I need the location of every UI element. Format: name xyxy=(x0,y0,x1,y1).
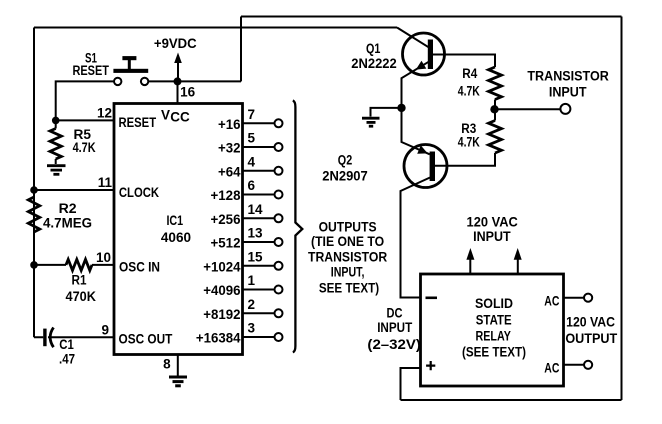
wire Q1 collector lead diagonal xyxy=(397,28,429,48)
svg-text:+16: +16 xyxy=(218,117,241,132)
IC IC1 4060 box xyxy=(114,104,243,355)
wire pin 10 stubs xyxy=(34,264,114,266)
svg-text:4.7K: 4.7K xyxy=(458,134,480,149)
terminal transistor input circle xyxy=(560,104,570,114)
svg-text:2N2907: 2N2907 xyxy=(322,169,368,184)
arrowhead 120VAC left xyxy=(466,248,474,260)
svg-text:IC1: IC1 xyxy=(166,213,183,228)
terminal AC output top circle xyxy=(584,294,592,302)
svg-text:.47: .47 xyxy=(59,352,75,367)
svg-text:+1024: +1024 xyxy=(203,259,241,274)
svg-text:OUTPUTS: OUTPUTS xyxy=(319,219,377,234)
svg-text:R1: R1 xyxy=(72,273,87,288)
label minus terminal xyxy=(426,296,438,299)
wire pin 9 OSC OUT xyxy=(34,336,114,338)
node +9V junction dot xyxy=(174,77,182,85)
svg-text:C1: C1 xyxy=(59,337,74,352)
svg-text:10: 10 xyxy=(96,250,111,265)
wire pin 11 CLOCK xyxy=(34,189,114,191)
terminal output circle pin 6 xyxy=(275,191,283,199)
svg-text:+32: +32 xyxy=(218,141,241,156)
svg-text:9: 9 xyxy=(101,323,109,338)
solid state relay box xyxy=(421,274,564,386)
svg-text:(2–32V): (2–32V) xyxy=(367,337,421,352)
svg-text:SEE TEXT): SEE TEXT) xyxy=(319,281,379,296)
svg-text:CC: CC xyxy=(170,110,190,125)
wire AC output bottom xyxy=(564,364,584,366)
wire S1 left terminal to R5 node xyxy=(56,81,114,120)
svg-text:14: 14 xyxy=(248,202,264,217)
ground below R5 xyxy=(47,166,66,175)
arrowhead Q2 emitter xyxy=(417,145,428,153)
node pin11 junction dot xyxy=(30,186,38,194)
arrowhead Q1 emitter xyxy=(416,61,427,70)
transistor Q2 2N2907 xyxy=(404,145,447,188)
terminal output circle pin 14 xyxy=(275,214,283,222)
svg-text:+16384: +16384 xyxy=(196,331,241,346)
svg-text:CLOCK: CLOCK xyxy=(119,185,159,200)
wire output pin 1 xyxy=(243,289,275,291)
wire corner step at x=241 xyxy=(240,17,242,82)
svg-text:RESET: RESET xyxy=(72,63,109,78)
svg-text:+512: +512 xyxy=(211,236,241,251)
wire right rail vertical xyxy=(621,17,623,401)
svg-text:SOLID: SOLID xyxy=(475,296,513,311)
svg-text:6: 6 xyxy=(248,178,256,193)
svg-text:Q2: Q2 xyxy=(338,153,352,168)
svg-text:7: 7 xyxy=(248,107,256,122)
resistor R3 xyxy=(489,121,502,154)
svg-text:OUTPUT: OUTPUT xyxy=(565,331,618,346)
node pin12 junction dot xyxy=(52,117,60,125)
label OUTPUTS note xyxy=(308,219,387,295)
svg-text:2: 2 xyxy=(248,297,256,312)
svg-text:15: 15 xyxy=(248,249,264,264)
terminal output circle pin 3 xyxy=(275,333,283,341)
terminal S1 left contact xyxy=(114,78,121,85)
capacitor C1 xyxy=(43,328,53,348)
terminal output circle pin 2 xyxy=(275,309,283,317)
svg-text:1: 1 xyxy=(248,273,256,288)
svg-text:TRANSISTOR: TRANSISTOR xyxy=(527,69,609,84)
wire output pin 14 xyxy=(243,217,275,219)
wire output pin 5 xyxy=(243,146,275,148)
wire output pin 13 xyxy=(243,241,275,243)
terminal output circle pin 7 xyxy=(275,119,283,127)
wire left rail vertical xyxy=(33,28,35,338)
label plus terminal xyxy=(426,361,435,370)
svg-text:+256: +256 xyxy=(211,212,241,227)
svg-text:AC: AC xyxy=(544,360,559,375)
svg-text:OSC OUT: OSC OUT xyxy=(119,331,174,346)
wire pin16 Vcc xyxy=(177,81,179,103)
svg-text:Q1: Q1 xyxy=(366,41,381,56)
svg-text:AC: AC xyxy=(544,294,559,309)
wire AC output top xyxy=(564,297,584,299)
wire output pin 4 xyxy=(243,170,275,172)
svg-text:11: 11 xyxy=(98,175,113,190)
arrowhead +9VDC xyxy=(174,53,182,64)
svg-text:(TIE ONE TO: (TIE ONE TO xyxy=(311,234,384,249)
svg-text:+8192: +8192 xyxy=(203,307,240,322)
svg-text:V: V xyxy=(161,107,170,122)
wire +9VDC arrow stem xyxy=(177,61,179,81)
svg-text:R4: R4 xyxy=(462,66,477,81)
svg-text:4.7K: 4.7K xyxy=(73,140,96,155)
svg-text:+128: +128 xyxy=(211,188,241,203)
svg-text:13: 13 xyxy=(248,226,264,241)
switch S1 pushbutton xyxy=(113,56,148,73)
svg-text:3: 3 xyxy=(248,321,256,336)
wire S1 right terminal to +9V node xyxy=(149,80,242,82)
wire top-left +9V rail horizontal xyxy=(34,27,397,29)
resistor R5 xyxy=(50,129,61,160)
terminal S1 right contact xyxy=(141,78,148,85)
wire output pin 7 xyxy=(243,122,275,124)
svg-text:R2: R2 xyxy=(59,201,77,216)
svg-text:4060: 4060 xyxy=(161,230,191,245)
wire Q1 emitter lead xyxy=(402,62,429,104)
svg-text:+9VDC: +9VDC xyxy=(154,36,197,51)
svg-text:12: 12 xyxy=(97,106,112,121)
terminal output circle pin 13 xyxy=(275,238,283,246)
wire bottom-left rail up to relay plus xyxy=(401,368,421,400)
wire Q1 base lead to R4 xyxy=(433,55,495,68)
wire to ground xyxy=(371,108,402,117)
wire output pin 6 xyxy=(243,194,275,196)
resistor R2 xyxy=(28,197,39,232)
resistor R4 xyxy=(489,67,502,100)
wire transistor input xyxy=(495,108,561,110)
terminal AC output bottom circle xyxy=(584,361,592,369)
svg-text:(SEE TEXT): (SEE TEXT) xyxy=(462,344,526,359)
svg-text:2N2222: 2N2222 xyxy=(351,56,397,71)
svg-text:INPUT,: INPUT, xyxy=(331,265,365,280)
wire Q2 emitter lead xyxy=(402,108,430,154)
wire output pin 2 xyxy=(243,312,275,314)
terminal output circle pin 15 xyxy=(275,262,283,270)
wire Q2 base lead to R3 xyxy=(434,153,495,166)
svg-text:4: 4 xyxy=(248,154,256,169)
transistor Q1 2N2222 xyxy=(403,33,445,75)
resistor R1 xyxy=(66,259,92,270)
wire pin 12 xyxy=(56,119,114,121)
svg-text:8: 8 xyxy=(163,357,171,372)
svg-text:DC: DC xyxy=(387,305,403,320)
node R4/R3 junction dot xyxy=(490,105,498,113)
terminal output circle pin 5 xyxy=(275,143,283,151)
svg-text:120 VAC: 120 VAC xyxy=(566,315,615,330)
svg-text:TRANSISTOR: TRANSISTOR xyxy=(308,249,387,264)
arrowhead 120VAC right xyxy=(514,248,522,260)
svg-text:RESET: RESET xyxy=(119,115,157,130)
wire 120VAC input arrow stems xyxy=(470,259,518,274)
svg-text:STATE: STATE xyxy=(476,312,512,327)
svg-text:INPUT: INPUT xyxy=(473,229,511,244)
wire output pin 3 xyxy=(243,336,275,338)
svg-text:4.7K: 4.7K xyxy=(458,83,480,98)
svg-text:5: 5 xyxy=(248,131,256,146)
wire bottom rail xyxy=(401,399,622,401)
wire pin 8 stub xyxy=(177,355,179,376)
svg-text:INPUT: INPUT xyxy=(549,84,587,99)
svg-text:470K: 470K xyxy=(66,289,97,304)
svg-text:+64: +64 xyxy=(218,164,241,179)
node pin10 junction dot xyxy=(30,261,38,269)
terminal output circle pin 4 xyxy=(275,167,283,175)
svg-text:+4096: +4096 xyxy=(203,283,241,298)
svg-text:RELAY: RELAY xyxy=(476,329,511,344)
svg-text:INPUT: INPUT xyxy=(377,320,413,335)
wire Q2 collector to relay minus xyxy=(401,178,431,298)
ground at Q1/Q2 emitters xyxy=(362,118,380,126)
svg-text:OSC IN: OSC IN xyxy=(119,260,160,275)
svg-text:120 VAC: 120 VAC xyxy=(467,215,519,230)
wire top +9V rail to relay xyxy=(241,16,622,18)
wire output pin 15 xyxy=(243,265,275,267)
node emitter junction dot xyxy=(397,104,405,112)
svg-text:16: 16 xyxy=(180,84,196,99)
svg-text:4.7MEG: 4.7MEG xyxy=(43,216,92,231)
terminal output circle pin 1 xyxy=(275,286,283,294)
ground below pin 8 xyxy=(169,377,187,386)
brace grouping outputs xyxy=(293,101,303,353)
